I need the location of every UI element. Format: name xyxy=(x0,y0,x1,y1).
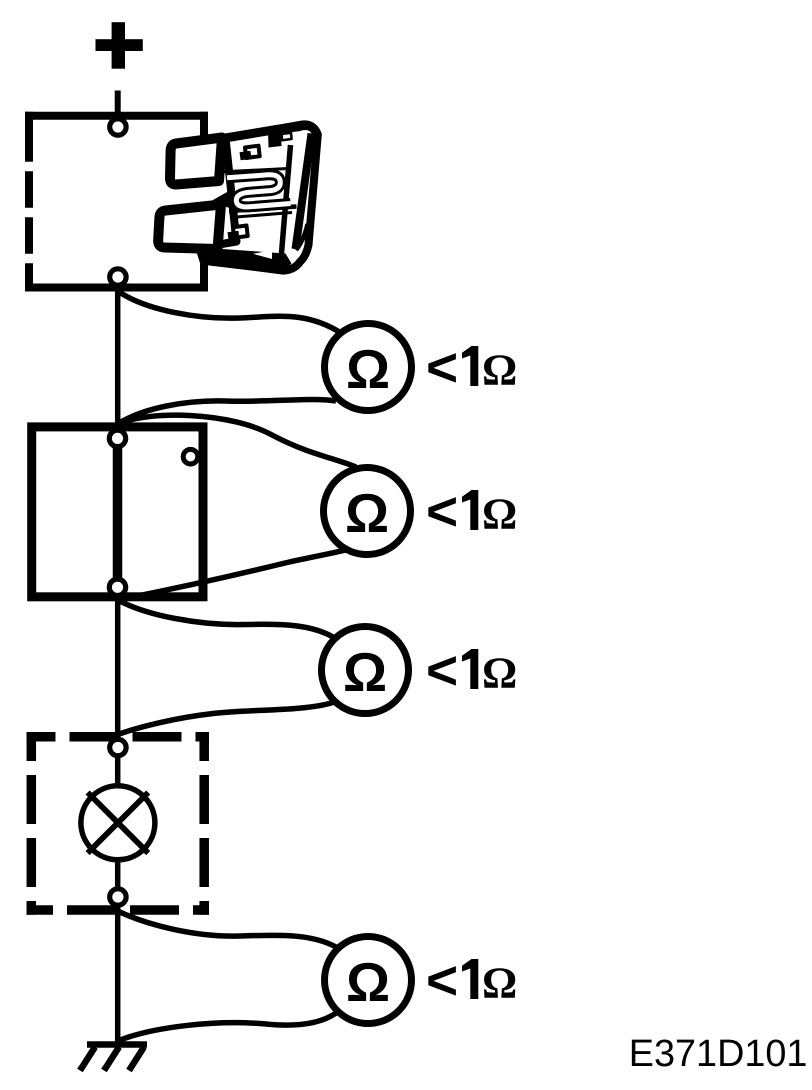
lamp box top terminal xyxy=(110,739,126,755)
fuse skirt xyxy=(200,248,292,271)
fuse window line bottom xyxy=(230,213,292,218)
svg-text:E371D101: E371D101 xyxy=(629,1033,808,1075)
svg-text:Ω: Ω xyxy=(482,490,517,539)
svg-text:Ω: Ω xyxy=(482,959,517,1008)
wire fuse box to switch box xyxy=(115,288,121,428)
ohmmeter 1 lead top xyxy=(118,291,341,333)
fuse body outline xyxy=(199,124,317,270)
ohmmeter 2 lead bottom xyxy=(118,548,353,600)
svg-text:Ω: Ω xyxy=(345,482,389,544)
fuse white backdrop xyxy=(193,137,213,258)
ohmmeter 4 circle xyxy=(325,937,412,1024)
fuse bottom prong xyxy=(158,205,221,250)
wire battery to fuse box xyxy=(115,91,121,125)
svg-text:<: < xyxy=(426,639,458,701)
fuse top edge band xyxy=(224,126,301,138)
svg-text:Ω: Ω xyxy=(482,649,517,698)
fuse window line mid xyxy=(229,207,297,212)
svg-text:Ω: Ω xyxy=(346,951,390,1013)
battery positive symbol xyxy=(96,22,143,68)
fuse side rim band xyxy=(296,134,312,250)
fuse top-right corner xyxy=(303,126,317,134)
wire switch box to lamp box xyxy=(115,594,121,792)
ground symbol xyxy=(80,1045,147,1071)
svg-text:Ω: Ω xyxy=(346,338,390,400)
fuse corner notch xyxy=(282,133,292,141)
ohmmeter 3 lead top xyxy=(118,600,333,637)
svg-text:<: < xyxy=(426,949,458,1011)
fuse rim bottom hook xyxy=(296,224,308,250)
fuse skirt wedge xyxy=(253,250,272,259)
switch top terminal xyxy=(109,430,125,446)
fuse top window marker xyxy=(245,146,260,158)
lamp box (dashed rectangle) xyxy=(27,732,210,915)
fuse box bottom terminal xyxy=(110,269,126,285)
lamp symbol circle xyxy=(81,786,155,860)
ohmmeter 4 lead bottom xyxy=(118,1013,336,1041)
switch bottom terminal xyxy=(109,579,125,595)
fuse element S ribbon xyxy=(227,175,291,207)
wire lamp box to ground xyxy=(115,853,121,1045)
fuse window line top xyxy=(219,169,288,173)
ohmmeter 1 lead bottom xyxy=(118,400,336,424)
svg-text:Ω: Ω xyxy=(482,346,517,395)
blade fuse illustration xyxy=(158,116,332,286)
fuse band step xyxy=(268,130,282,148)
switch auxiliary terminal xyxy=(183,449,198,464)
fuse side slot white xyxy=(296,131,307,164)
lamp box bottom terminal xyxy=(110,889,126,905)
ohmmeter 3 circle xyxy=(322,627,409,714)
fuse bottom window marker xyxy=(233,226,248,238)
svg-text:<: < xyxy=(426,480,458,542)
svg-text:<: < xyxy=(426,336,458,398)
switch contact bar xyxy=(113,440,123,586)
ohmmeter 2 lead top xyxy=(118,415,356,467)
fuse box top terminal xyxy=(110,119,126,135)
ohmmeter 2 circle xyxy=(324,468,411,555)
ohmmeter 4 lead top xyxy=(118,911,336,947)
switch box (solid rectangle) xyxy=(32,427,203,597)
fuse top prong xyxy=(170,138,222,185)
lamp symbol X xyxy=(88,793,149,854)
fuse front right edge xyxy=(281,145,291,259)
svg-text:Ω: Ω xyxy=(343,641,387,703)
fuse inter-prong notch xyxy=(210,192,232,209)
ohmmeter 1 circle xyxy=(325,324,412,411)
ohmmeter 3 lead bottom xyxy=(118,703,333,735)
fuse box (dashed rectangle) xyxy=(25,112,208,292)
